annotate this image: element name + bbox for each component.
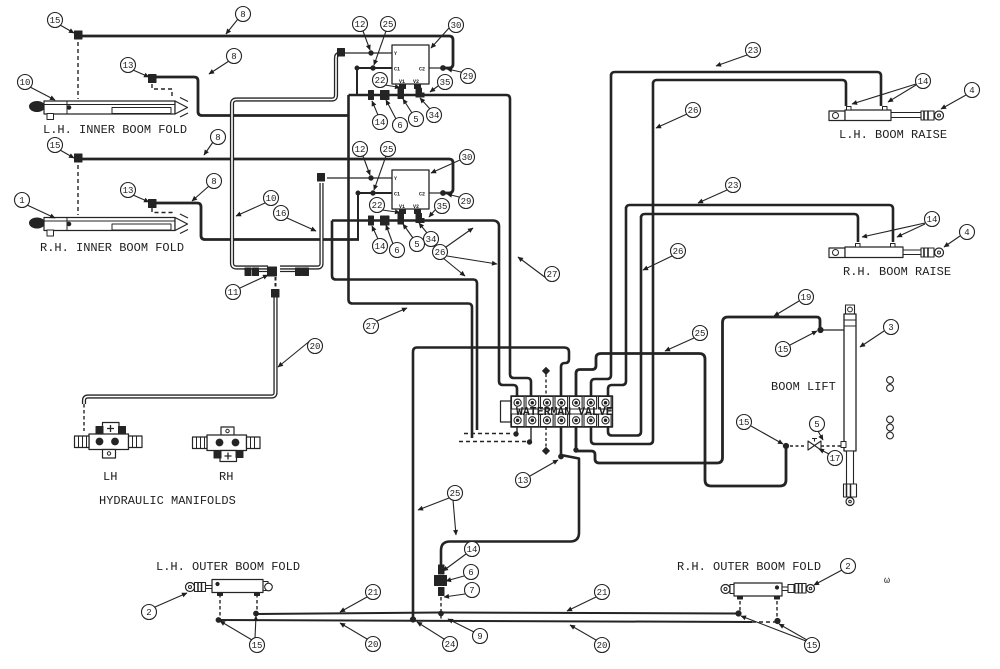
wire hose 21: bottom upper hose [255,613,737,615]
node callout 14 valve1 [372,101,388,130]
node callout 14 RH raise fittings [862,212,940,238]
waterman valve ports [512,397,612,427]
svg-text:WATERMAN VALVE: WATERMAN VALVE [516,406,613,419]
fitting 6 valve2 [381,216,390,225]
svg-text:27: 27 [547,270,558,280]
svg-text:24: 24 [445,640,456,650]
node callout 10 LH cylinder [18,75,56,101]
wire hose 8 LH upper: P fitting to valve1 C2 [80,36,453,68]
wire hose 24 waterman port4 top line to bottom hose [413,348,569,620]
svg-text:15: 15 [252,641,263,651]
wire hose 19 boom lift base: waterman port5 bottom to base fitting [576,317,820,463]
svg-text:LH: LH [103,470,117,484]
node callout 25 lift rod hose [665,326,708,352]
wire hollow hose 10: valve1 Y port to tee 11 [232,54,339,268]
svg-text:14: 14 [375,118,386,128]
svg-text:C1: C1 [394,192,400,198]
svg-text:19: 19 [801,293,812,303]
node callout 25 valve2 [374,142,396,191]
fitting 6 valve1 [381,91,390,100]
svg-text:14: 14 [927,215,938,225]
wire hose 23 RH: run to RH boom raise and down leg to waterman port7 top [608,205,893,396]
wire valve1 left route to waterman port2 bottom [349,95,473,438]
svg-text:Y: Y [394,51,397,57]
svg-text:26: 26 [688,106,699,116]
wire dashed waterman port1 bottom link [464,433,512,435]
svg-text:22: 22 [375,76,386,86]
node diamond terminal port3 top [543,368,550,375]
svg-text:29: 29 [461,197,472,207]
svg-text:6: 6 [394,246,399,256]
wire dashed boom lift rod port links [790,445,806,447]
node callout 5 valve2 [403,224,425,252]
node callout 20 manifold hose [278,339,323,368]
node callout 1 RH cylinder [15,193,56,219]
svg-text:6: 6 [397,121,402,131]
wire hose 8 RH upper: P fitting to valve2 C2 [80,159,453,193]
wire dashed RH inner base port [77,165,79,215]
svg-text:11: 11 [228,288,239,298]
node callout 15 RH outer fittings [741,616,820,653]
node callout 7 stack [444,583,480,598]
node callout 27 hose b [518,257,560,282]
node callout 10 hose vertical [236,191,279,217]
node callout 13 RH P2 [121,183,150,203]
node callout 20 hose left [340,623,381,652]
fitting 5 valve1 [398,92,404,99]
svg-text:2: 2 [146,608,151,618]
node callout 20 hose b [443,258,465,276]
svg-text:27: 27 [366,322,377,332]
svg-text:R.H. BOOM RAISE: R.H. BOOM RAISE [843,265,951,279]
fitting 6 bottom stack [435,576,447,586]
svg-text:C1: C1 [394,67,400,73]
node callout 35 valve2 [429,199,450,218]
node callout 2 LH outer [142,593,188,620]
wire hollow hose 16: valve2 Y port to tee 11 [280,183,322,268]
node callout 26 valve2 row [433,228,498,264]
wire dashed waterman port3 bottom solenoid [545,427,547,448]
wire hose 23 LH: down leg and run to LH boom raise port [591,72,881,396]
node callout 15 boom lift base fitting [776,331,818,357]
node callout 6 stack [446,565,479,582]
wire valve1 bottom row line [349,94,507,97]
svg-text:13: 13 [123,186,134,196]
node callout 14 valve2 [372,226,388,254]
wire valve1 C1 stub [357,68,392,95]
wire waterman port4 bottom route to bottom fitting stack [441,427,579,566]
node callout 3 boom lift [860,320,899,348]
svg-text:23: 23 [748,46,759,56]
node dot waterman port2 bottom [527,440,531,444]
wire dashed RH outer cylinder ports [739,595,741,612]
wire hose 26 RH: run to RH boom raise and down leg to waterman port7 bottom [608,214,858,436]
node callout 16 hose [274,206,317,232]
wire hose 26 LH: run to LH boom raise port and down leg to waterman port6 bottom [591,80,846,444]
node callout 14 stack [443,542,480,572]
svg-text:4: 4 [969,86,974,96]
node callout 5 coupler [810,417,825,441]
svg-text:3: 3 [888,323,893,333]
node callout 25 hoses mid [418,486,463,536]
svg-text:34: 34 [429,111,440,121]
svg-text:C2: C2 [419,192,425,198]
svg-text:15: 15 [50,16,61,26]
node callout 11 tee [226,275,269,300]
svg-text:V1: V1 [399,204,405,210]
wire hose 26 valve2 row right to waterman port1 top [494,221,517,397]
tee fitting 11 [245,267,309,297]
svg-text:13: 13 [518,476,529,486]
node callout 4 LH raise rod [941,83,980,110]
svg-text:R.H. OUTER BOOM FOLD: R.H. OUTER BOOM FOLD [677,560,821,574]
cylinder RH outer boom fold [721,583,815,599]
fitting 34 valve1 [416,88,425,98]
wire hose 20 valve2 row left to waterman port1 bottom [332,221,477,431]
node callout 8 hose RH upper [204,130,226,156]
node callout 22 valve1 [373,73,401,88]
node callout 15 LH outer fittings [220,616,265,653]
svg-text:17: 17 [830,454,841,464]
fitting 7 bottom stack [439,588,445,596]
node callout 13 LH P2 [121,58,150,78]
node dot port4 bottom [559,454,564,459]
P fitting LH inner rod [149,75,157,83]
P fitting LH inner base [75,31,83,39]
wire dashed LH outer cylinder ports [219,594,221,619]
node callout 30 valve1 [431,18,464,49]
wire dashed RH inner rod port [152,208,172,215]
svg-text:14: 14 [467,545,478,555]
HOSES [80,36,893,622]
wire hollow hose 20: tee 11 down to LH manifold [275,277,277,288]
svg-text:30: 30 [451,21,462,31]
cylinder boom lift [818,305,857,506]
svg-text:35: 35 [440,78,451,88]
node callout 8 hose top [226,7,251,35]
svg-text:35: 35 [437,202,448,212]
fitting 14 valve2 [369,216,374,225]
valve U2 solenoid block [318,170,446,219]
node callout 35 valve1 [430,75,453,93]
node dot waterman port1 bottom [514,432,518,436]
node callout 34 valve2 [419,223,439,247]
svg-text:10: 10 [20,78,31,88]
svg-text:22: 22 [372,201,383,211]
svg-text:6: 6 [468,568,473,578]
node callout 8 hose LH P2 [209,49,242,75]
cylinder RH inner boom fold [30,214,189,236]
svg-text:14: 14 [375,242,386,252]
node callout 14 LH raise fittings [852,74,931,105]
cylinder LH inner boom fold [30,98,189,120]
svg-text:26: 26 [435,248,446,258]
svg-text:15: 15 [807,641,818,651]
node callout 19 boom lift hose [774,290,814,317]
node callout 12 valve1 [353,17,371,51]
node callout 17 coupler [819,449,843,466]
svg-text:2: 2 [845,562,850,572]
wire dashed waterman port3 top solenoid [545,374,547,396]
wire dashed LH inner base port [77,42,79,99]
node junction dots bottom hoses [216,618,221,623]
svg-text:25: 25 [695,329,706,339]
svg-text:8: 8 [215,133,220,143]
node dot port5 bottom [574,448,578,452]
node callout 26 RH raise hose [643,244,686,271]
svg-text:L.H. INNER BOOM FOLD: L.H. INNER BOOM FOLD [43,123,187,137]
node diamond terminal port3 bottom [543,448,550,455]
node callout 15 RH P1 [48,138,75,159]
svg-text:20: 20 [597,641,608,651]
svg-text:21: 21 [368,588,379,598]
wire valve2 bottom row line [332,219,494,222]
svg-text:7: 7 [469,586,474,596]
node callout 34 valve1 [420,98,442,123]
node callout 26 LH raise hose [656,103,701,129]
node callout 27 hose a [364,308,408,334]
node callout 21 hose right [567,585,610,612]
wire dashed bottom fitting stack to hoses [440,597,442,620]
svg-text:20: 20 [368,640,379,650]
svg-text:12: 12 [355,20,366,30]
svg-text:12: 12 [355,145,366,155]
node callout 29 valve2 [447,194,474,209]
waterman valve block [501,396,613,427]
svg-text:4: 4 [964,228,969,238]
svg-text:RH: RH [219,470,233,484]
svg-text:14: 14 [918,77,929,87]
svg-text:BOOM LIFT: BOOM LIFT [771,380,836,394]
svg-text:V1: V1 [399,79,405,85]
fitting 5 valve2 [398,218,404,225]
svg-text:15: 15 [50,141,61,151]
svg-text:34: 34 [426,235,437,245]
valve U1 solenoid block [338,45,446,94]
svg-text:20: 20 [310,342,321,352]
DASHED WIRES [78,42,841,620]
wire hose 8 RH lower: P2 to C1-2 drop [152,203,359,240]
svg-text:25: 25 [383,145,394,155]
svg-text:V2: V2 [413,79,419,85]
svg-text:21: 21 [597,588,608,598]
svg-text:30: 30 [462,153,473,163]
node callout 15 lift rod fitting [737,415,784,445]
node callout 2 RH outer [814,559,856,586]
svg-text:HYDRAULIC MANIFOLDS: HYDRAULIC MANIFOLDS [99,494,236,508]
svg-text:C2: C2 [419,67,425,73]
P fitting RH inner base [75,154,83,162]
node callout 15 LH P1 [48,13,75,34]
cylinder LH boom raise [829,107,944,121]
cylinder RH boom raise [829,244,944,258]
node callout 6 valve1 [386,100,408,133]
svg-text:23: 23 [728,181,739,191]
svg-text:8: 8 [240,10,245,20]
svg-text:R.H. INNER BOOM FOLD: R.H. INNER BOOM FOLD [40,241,184,255]
fitting 14 bottom stack [439,565,445,574]
svg-text:25: 25 [450,489,461,499]
node callout 20 hose right [570,625,610,653]
node callout 29 valve1 [447,69,476,84]
svg-text:Y: Y [394,176,397,182]
node callout 9 stack [448,619,488,644]
svg-text:15: 15 [739,418,750,428]
node chain link circles right [887,377,894,384]
svg-text:L.H. OUTER BOOM FOLD: L.H. OUTER BOOM FOLD [156,560,300,574]
fitting 14 valve1 [369,91,374,100]
svg-text:26: 26 [673,247,684,257]
node callout 22 valve2 [370,198,401,213]
svg-text:5: 5 [414,240,419,250]
node callout 4 RH raise rod [944,225,975,248]
node callout 25 valve1 [374,17,396,66]
svg-text:V2: V2 [413,204,419,210]
svg-text:1: 1 [19,196,24,206]
node callout 12 valve2 [353,142,371,176]
svg-text:9: 9 [477,632,482,642]
svg-text:16: 16 [276,209,287,219]
wire dashed LH inner rod port [152,84,172,99]
cylinder LH outer boom fold [186,580,273,596]
node callout 5 valve1 [403,99,424,127]
node callout 23 RH raise hose [698,178,741,204]
node callout 13 waterman bottom [516,460,559,488]
wire hose 20: bottom lower hose [218,620,752,622]
svg-text:8: 8 [211,177,216,187]
svg-text:25: 25 [383,20,394,30]
svg-text:ω: ω [884,576,890,587]
hydraulic manifold LH [75,423,143,459]
wire hose 27 valve1 row to waterman port2 top [506,95,531,396]
svg-text:5: 5 [413,115,418,125]
svg-text:5: 5 [814,420,819,430]
wire boom lift rod hose: port5 top to fitting 15 [576,354,786,487]
valve 17 breakaway coupler [783,439,821,451]
wire valve2 C1 stub drop [358,193,392,239]
node callout 8 hose RH lower [192,174,222,202]
node callout 6 valve2 [386,225,405,258]
hydraulic manifold RH [193,427,261,462]
wire hose 8 LH lower: P2 to junction x350 [155,77,349,116]
svg-text:8: 8 [231,52,236,62]
node callout 24 hose [417,622,458,652]
svg-text:29: 29 [463,72,474,82]
svg-text:15: 15 [778,345,789,355]
node callout 23 LH raise hose [716,43,761,67]
fitting 34 valve2 [416,213,425,223]
node callout 21 hose left [340,585,381,613]
svg-text:10: 10 [266,194,277,204]
wire dashed waterman port2 bottom link [459,441,526,443]
svg-text:L.H. BOOM RAISE: L.H. BOOM RAISE [839,128,947,142]
P fitting RH inner rod [149,200,157,208]
svg-text:13: 13 [123,61,134,71]
node callout 30 valve2 [431,150,475,174]
